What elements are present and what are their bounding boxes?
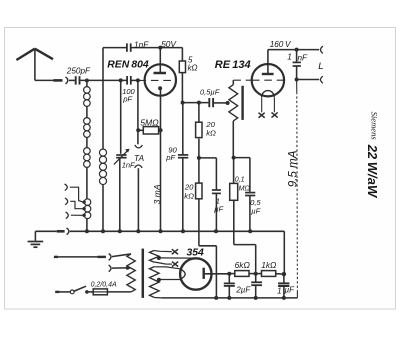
svg-text:kΩ: kΩ: [184, 191, 194, 200]
svg-text:µF: µF: [285, 285, 296, 294]
svg-text:0,5: 0,5: [250, 198, 261, 207]
svg-text:RE 134: RE 134: [215, 59, 251, 71]
svg-text:250pF: 250pF: [66, 66, 91, 75]
svg-text:2µF: 2µF: [235, 286, 251, 295]
svg-text:22 W/aW: 22 W/aW: [365, 144, 380, 199]
svg-text:160 V: 160 V: [270, 40, 292, 49]
svg-text:nF: nF: [298, 54, 309, 63]
svg-text:1nF: 1nF: [134, 39, 149, 49]
svg-text:6kΩ: 6kΩ: [235, 260, 251, 270]
svg-text:1kΩ: 1kΩ: [261, 260, 277, 270]
svg-text:20: 20: [184, 183, 194, 192]
svg-text:kΩ: kΩ: [188, 64, 198, 73]
svg-text:50V: 50V: [161, 39, 177, 49]
svg-text:MΩ: MΩ: [239, 184, 251, 192]
svg-text:0,5µF: 0,5µF: [200, 88, 220, 97]
svg-text:354: 354: [187, 248, 205, 259]
svg-text:µF: µF: [251, 207, 260, 216]
svg-text:µF: µF: [214, 205, 224, 214]
svg-text:TA: TA: [134, 153, 144, 163]
svg-text:pF: pF: [122, 94, 132, 103]
svg-text:1: 1: [277, 286, 282, 295]
svg-text:L: L: [318, 61, 323, 72]
svg-text:kΩ: kΩ: [206, 128, 216, 137]
svg-text:0,2/0,4A: 0,2/0,4A: [91, 281, 117, 288]
svg-text:9,5 mA: 9,5 mA: [286, 150, 299, 187]
svg-text:3 mA: 3 mA: [152, 184, 162, 204]
svg-text:5MΩ: 5MΩ: [140, 117, 159, 127]
svg-text:Siemens: Siemens: [369, 112, 379, 141]
svg-text:1: 1: [287, 53, 292, 62]
svg-text:0,1: 0,1: [235, 175, 245, 183]
svg-text:pF: pF: [165, 153, 176, 162]
svg-text:REN 804: REN 804: [107, 60, 149, 71]
